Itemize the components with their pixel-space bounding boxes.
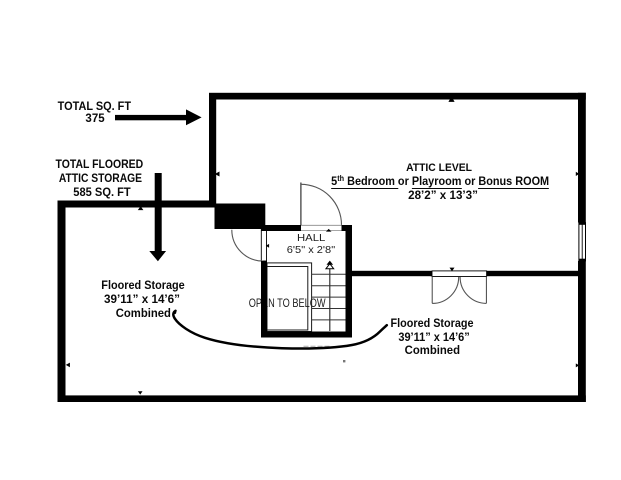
stair up-arrow solid tip: [327, 261, 334, 265]
tiny scale artifact: [304, 345, 330, 347]
marker: hall door opening: [326, 229, 332, 232]
door D3 right leaf: [485, 277, 487, 304]
open-to-below inner box: [267, 267, 308, 331]
door D2 leaf (hall left door): [261, 230, 266, 261]
stair up-arrow open head: [326, 264, 334, 269]
open-to-below outer box: [267, 263, 312, 332]
double door D3 header: [432, 271, 487, 277]
label: Combined (left): [13, 307, 273, 319]
wall: hall top left segment: [261, 225, 301, 231]
wall: hall bottom: [261, 332, 352, 338]
wall: hall right: [346, 225, 353, 338]
label: OPEN TO BELOW: [157, 297, 417, 309]
wall: attic top: [209, 93, 586, 100]
marker: right wall upper: [576, 172, 579, 176]
marker: hall right wall: [346, 244, 349, 248]
label: TOTAL SQ. FT: [0, 100, 225, 112]
window top cap: [579, 223, 586, 225]
freehand leader curve: [173, 311, 387, 349]
label: 585 SQ. FT: [0, 186, 232, 198]
marker: hall left wall: [266, 244, 269, 248]
label: 5th Bedroom or Playroom or Bonus ROOM: [311, 175, 571, 187]
chimney block: [215, 204, 266, 230]
window centre line: [581, 223, 583, 261]
wall: hall left lower: [261, 261, 267, 338]
wall: mid left segment: [346, 271, 432, 276]
label: 375: [0, 112, 225, 124]
marker: attic left wall: [215, 172, 220, 177]
label: Floored Storage (right): [302, 317, 562, 329]
door D1 leaf: [300, 183, 302, 226]
label: ATTIC LEVEL: [309, 163, 569, 174]
door D3 right swing arc: [460, 277, 486, 303]
label: TOTAL FLOORED: [0, 158, 230, 170]
wall: right upper: [578, 93, 586, 223]
arrow: attic storage down pointer: [155, 173, 162, 251]
wall: storage left: [58, 201, 66, 403]
stair treads: [312, 274, 346, 320]
door D1 swing arc: [301, 184, 342, 225]
wall: mid right segment: [487, 271, 579, 276]
marker: bottom wall: [138, 391, 143, 394]
label: Combined (right): [303, 344, 563, 356]
label: 28'2" x 13'3": [313, 189, 573, 201]
label: Floored Storage (left): [13, 279, 273, 291]
door D3 left leaf: [431, 277, 433, 304]
label: 39'11" x 14'6" (right): [304, 331, 564, 343]
wall: storage top: [58, 201, 217, 208]
marker: attic top wall: [448, 97, 454, 102]
door D1 opening frame lines (hall top door): [301, 225, 342, 230]
door D3 left swing arc: [432, 277, 459, 303]
label: 39'11" x 14'6" (left): [12, 293, 272, 305]
gray dot: [343, 360, 345, 362]
marker: right wall lower: [576, 363, 579, 367]
marker: storage top wall: [138, 206, 144, 210]
door D2 swing arc: [232, 230, 263, 261]
wall: hall top right segment: [342, 225, 353, 231]
window bottom cap: [579, 259, 586, 261]
stair up-arrow shaft: [329, 269, 331, 331]
label: 6'5" x 2'8": [181, 245, 441, 256]
marker: storage left wall: [66, 363, 70, 368]
window frame on right wall: [579, 223, 586, 261]
label: HALL: [181, 233, 441, 244]
label: ATTIC STORAGE: [0, 172, 231, 184]
wall: attic left: [209, 93, 216, 207]
arrow: total sq ft pointer: [115, 115, 186, 120]
marker: double door centre: [450, 268, 455, 272]
wall: right lower: [578, 261, 586, 402]
wall: bottom: [58, 395, 586, 402]
